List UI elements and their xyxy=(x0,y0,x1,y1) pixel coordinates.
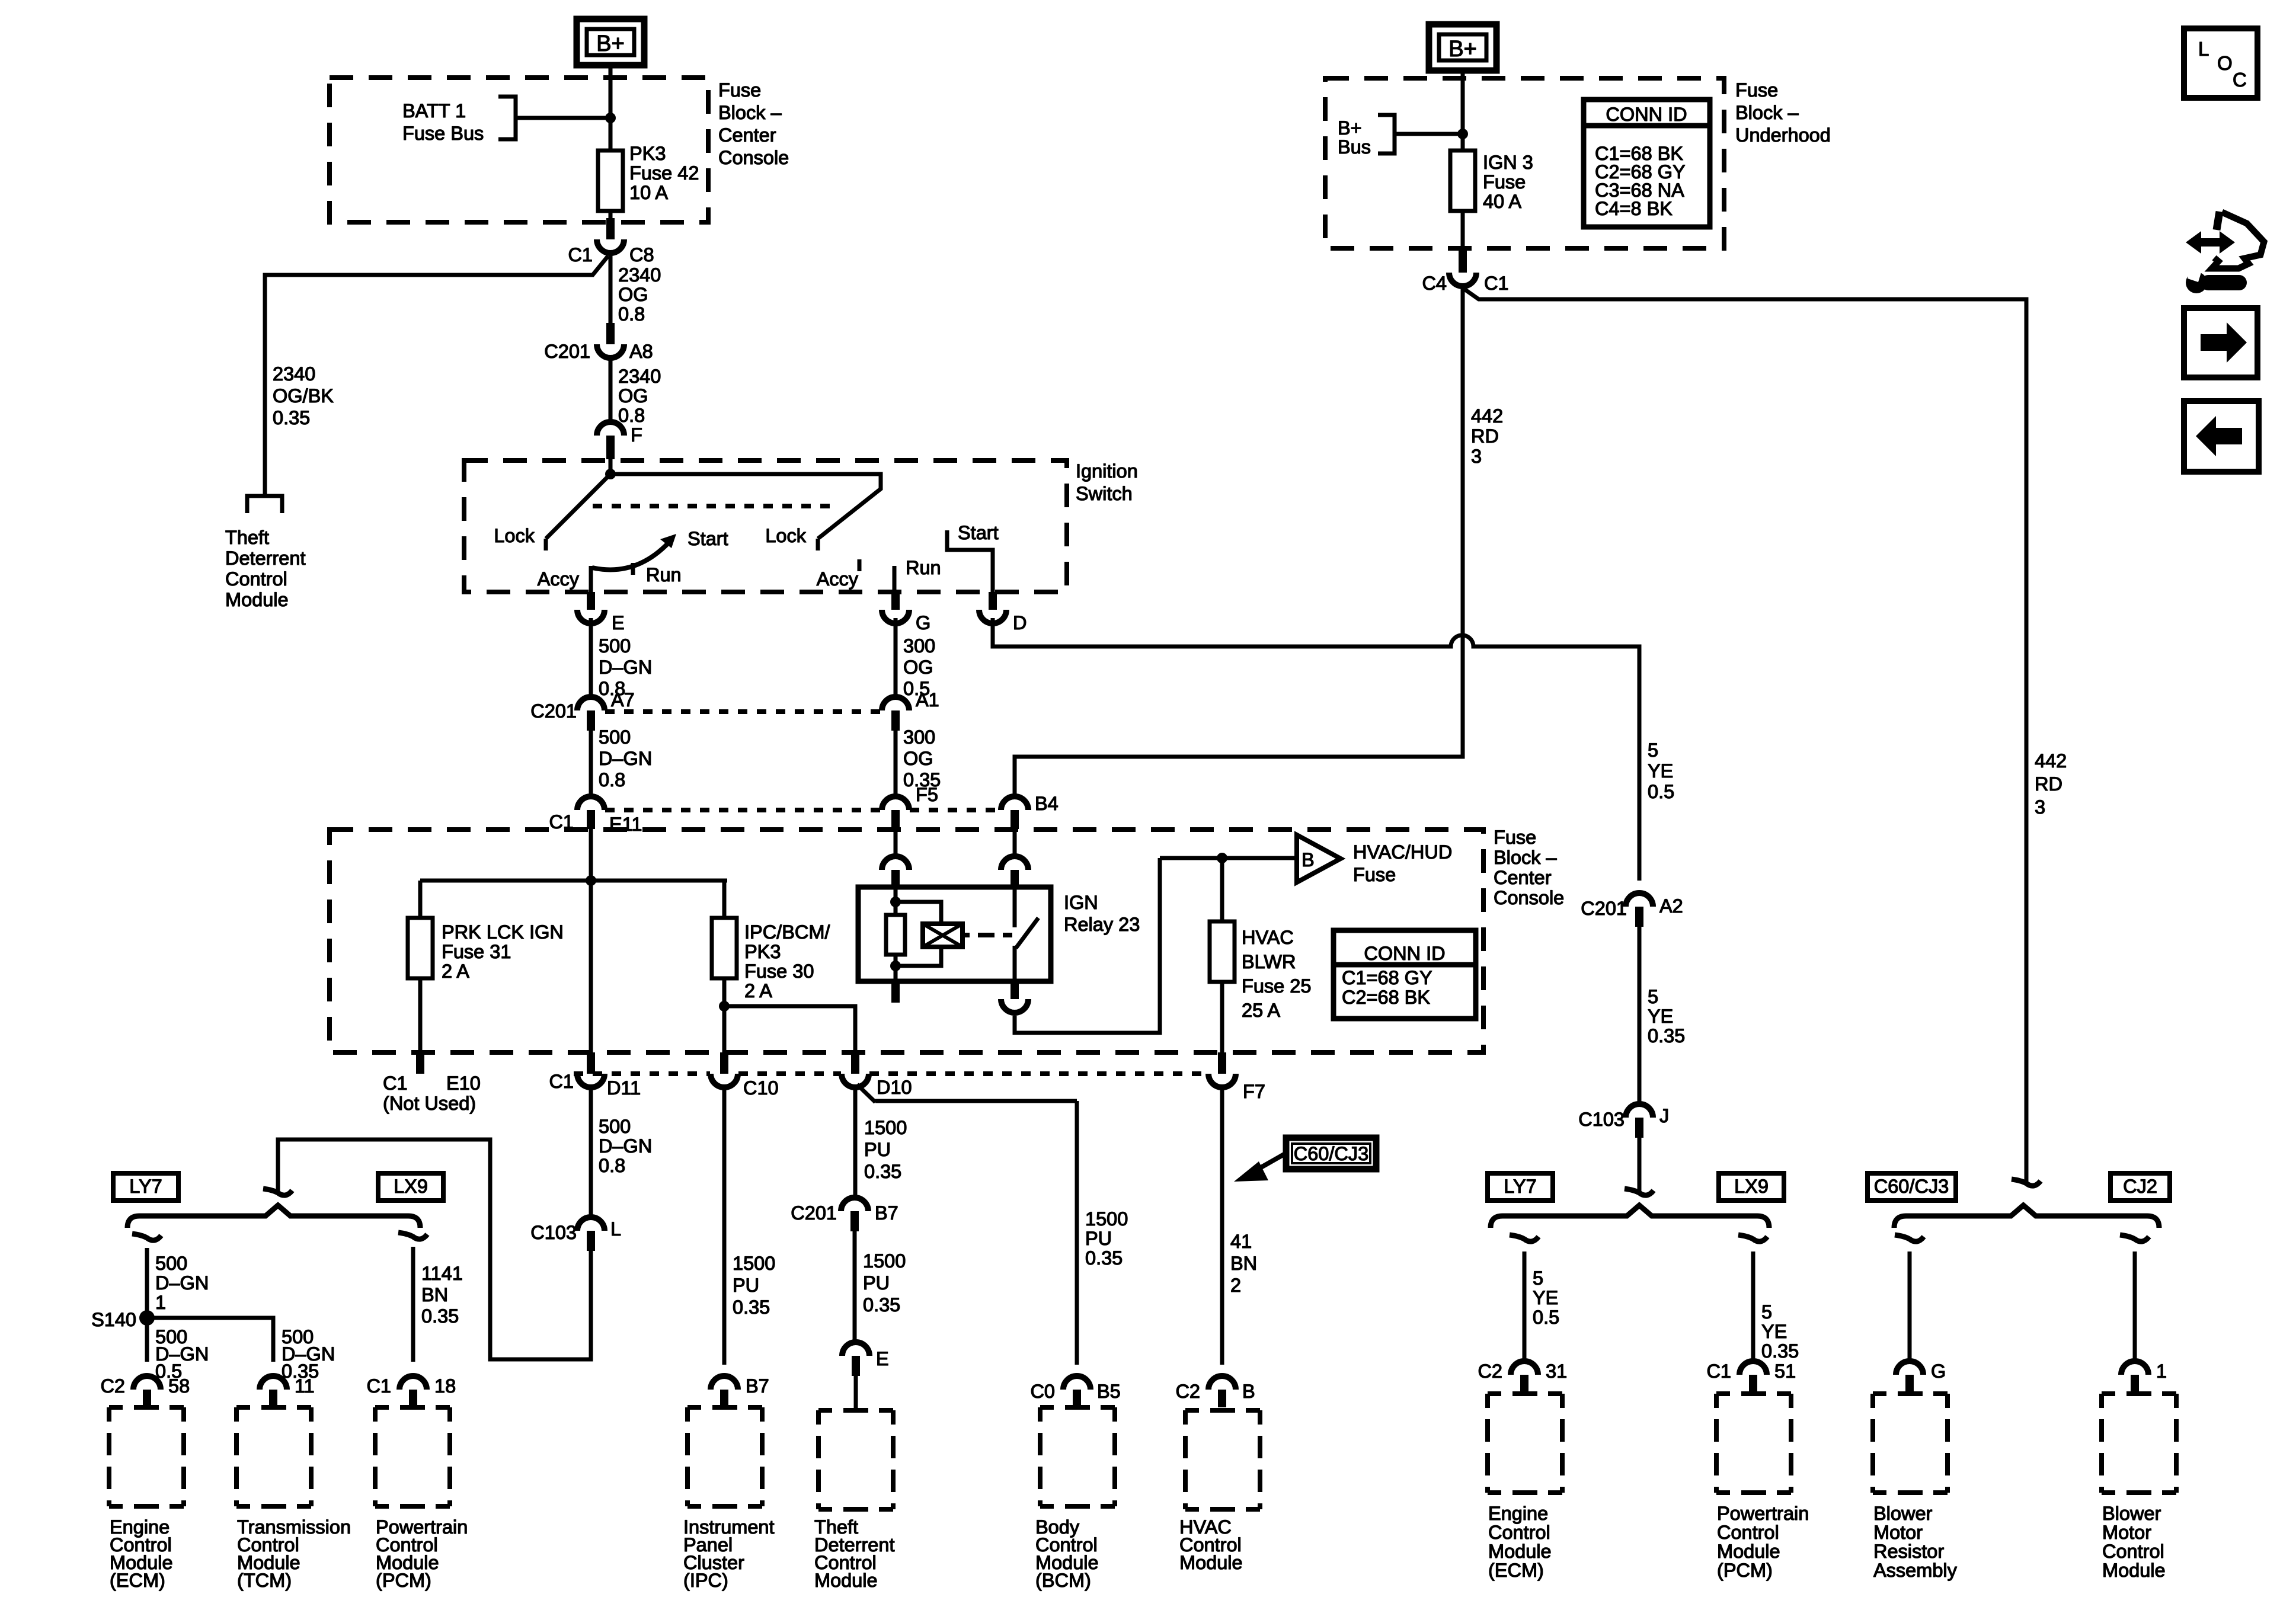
svg-text:Start: Start xyxy=(687,528,728,549)
powertrain control module (right) box xyxy=(1716,1394,1791,1493)
svg-text:YE: YE xyxy=(1648,760,1673,782)
label Accy (pole 2) xyxy=(817,568,859,590)
wire label 2340 OG 0.8 (lower) xyxy=(618,366,661,426)
svg-text:Module: Module xyxy=(225,589,289,610)
svg-text:PK3: PK3 xyxy=(629,143,666,164)
svg-text:Control: Control xyxy=(2102,1541,2164,1562)
LOC icon box xyxy=(2184,28,2257,98)
svg-text:LX9: LX9 xyxy=(394,1176,428,1197)
svg-text:Start: Start xyxy=(958,522,999,543)
wire node to HVAC BLWR fuse and HVAC/HUD xyxy=(1160,856,1297,860)
svg-text:Resistor: Resistor xyxy=(1873,1541,1944,1562)
svg-text:C1: C1 xyxy=(1484,273,1509,294)
connector E (theft) xyxy=(842,1342,889,1376)
svg-text:C0: C0 xyxy=(1030,1381,1055,1402)
blower motor resistor assembly box xyxy=(1873,1394,1948,1493)
wire break blower control xyxy=(2120,1235,2149,1241)
svg-text:PK3: PK3 xyxy=(744,941,781,962)
wire to PCM pin 18 xyxy=(411,1247,415,1362)
svg-text:C1: C1 xyxy=(366,1375,391,1397)
svg-text:442: 442 xyxy=(2035,750,2067,772)
connector C103/L xyxy=(530,1217,621,1251)
wire B+ bus to node xyxy=(1395,132,1463,136)
svg-text:B7: B7 xyxy=(746,1375,769,1397)
svg-text:Motor: Motor xyxy=(2102,1522,2151,1543)
svg-text:C103: C103 xyxy=(530,1222,577,1243)
svg-text:C1: C1 xyxy=(568,244,593,265)
svg-text:Relay 23: Relay 23 xyxy=(1064,914,1140,935)
label HVAC/HUD Fuse xyxy=(1353,841,1452,885)
wire S140 to ECM pin 58 xyxy=(145,1318,149,1362)
junction dot bus at D11 column xyxy=(586,875,596,886)
svg-text:Module: Module xyxy=(1488,1541,1552,1562)
wire E to C201/A7 xyxy=(589,618,593,699)
svg-text:2 A: 2 A xyxy=(744,980,772,1001)
svg-text:C4=8 BK: C4=8 BK xyxy=(1595,198,1673,219)
wire fuse25 to F7 xyxy=(1220,982,1224,1052)
svg-text:(ECM): (ECM) xyxy=(1488,1560,1544,1581)
svg-text:A2: A2 xyxy=(1659,895,1683,917)
label Engine Control Module ECM (right) xyxy=(1488,1503,1552,1581)
connector C1/C8 xyxy=(568,218,654,265)
svg-text:C8: C8 xyxy=(629,244,654,265)
wire S140 branch to TCM xyxy=(147,1318,273,1362)
splice S140 xyxy=(139,1310,155,1326)
svg-text:B4: B4 xyxy=(1035,793,1059,814)
svg-text:D–GN: D–GN xyxy=(599,1135,652,1157)
wire label 1500 PU 0.35 (IPC) xyxy=(733,1253,775,1318)
svg-text:S140: S140 xyxy=(91,1309,136,1330)
wire A7 to C1/E11 xyxy=(589,731,593,799)
wire label 300 OG 0.5 xyxy=(903,635,935,699)
svg-text:CJ2: CJ2 xyxy=(2123,1176,2157,1197)
svg-text:Lock: Lock xyxy=(765,525,806,546)
connector C1/D11 xyxy=(549,1052,641,1099)
svg-text:Bus: Bus xyxy=(1338,136,1371,158)
wire to blower resistor G xyxy=(1908,1251,1912,1362)
BATT 1 Fuse Bus terminal xyxy=(498,97,516,139)
svg-text:C: C xyxy=(2233,69,2247,91)
wire D10 to C201/B7 xyxy=(855,1084,1077,1199)
svg-text:D: D xyxy=(1013,612,1027,633)
svg-text:1500: 1500 xyxy=(863,1250,906,1272)
wire label 1141 BN 0.35 xyxy=(421,1263,463,1327)
wire break blower resistor xyxy=(1895,1235,1924,1241)
wire B+ down to fuse PK3 xyxy=(609,65,613,152)
wire label 500 D-GN 0.8 (E-A7) xyxy=(599,635,652,699)
connector C2/58 xyxy=(100,1375,190,1407)
wire BATT1 bus to node xyxy=(516,116,610,120)
svg-text:A7: A7 xyxy=(611,689,635,710)
svg-text:Run: Run xyxy=(906,557,941,578)
label BATT 1 Fuse Bus xyxy=(402,100,484,144)
wire label 500 D-GN 0.5 (ECM) xyxy=(155,1326,209,1382)
svg-text:PU: PU xyxy=(1085,1228,1112,1249)
wire bus to fuse 31 xyxy=(418,881,423,919)
svg-text:E: E xyxy=(876,1348,889,1369)
switch pole 2 bus xyxy=(610,474,881,550)
svg-text:31: 31 xyxy=(1546,1361,1567,1382)
wire break ECM right xyxy=(1510,1235,1539,1241)
svg-text:51: 51 xyxy=(1774,1361,1796,1382)
svg-text:PU: PU xyxy=(863,1272,890,1294)
wire label 1500 PU 0.35 (theft) xyxy=(863,1250,906,1315)
svg-text:Console: Console xyxy=(718,147,789,168)
relay coil bottom pin xyxy=(891,981,900,1003)
relay coil xyxy=(886,887,905,981)
svg-text:OG/BK: OG/BK xyxy=(273,385,334,406)
svg-text:BN: BN xyxy=(421,1284,448,1305)
label Start (pole 2) xyxy=(958,522,999,543)
connector C1/18 xyxy=(366,1375,456,1407)
svg-text:Fuse: Fuse xyxy=(1483,171,1526,193)
junction dot HVAC feed xyxy=(1217,853,1227,863)
svg-text:G: G xyxy=(916,612,930,633)
contact Accy wire to E xyxy=(589,566,593,594)
wire to ECM pin 31 xyxy=(1523,1251,1527,1362)
svg-text:Run: Run xyxy=(646,564,682,585)
svg-text:Fuse 25: Fuse 25 xyxy=(1242,975,1311,997)
wire label 1500 PU 0.35 (BCM) xyxy=(1085,1208,1128,1269)
svg-text:B: B xyxy=(1302,849,1315,870)
svg-text:2340: 2340 xyxy=(618,264,661,286)
fuse HVAC BLWR Fuse 25 25A xyxy=(1210,921,1235,982)
svg-text:Deterrent: Deterrent xyxy=(225,548,305,569)
svg-text:Lock: Lock xyxy=(494,525,535,546)
wire E11 through bus to D11 xyxy=(589,829,593,1052)
label Start (pole 1) xyxy=(687,528,728,549)
CONN ID table (center console) xyxy=(1334,930,1476,1019)
wire to BCM B5 xyxy=(1075,1101,1079,1365)
wire label 5 YE 0.5 (ECM) xyxy=(1533,1267,1559,1328)
svg-text:Center: Center xyxy=(718,124,776,146)
label HVAC BLWR Fuse 25 25 A xyxy=(1242,927,1311,1021)
svg-text:Block –: Block – xyxy=(1494,847,1558,868)
svg-text:18: 18 xyxy=(434,1375,456,1397)
svg-text:C2=68 BK: C2=68 BK xyxy=(1342,987,1430,1008)
connector F (ignition switch input) xyxy=(597,422,642,459)
svg-text:(PCM): (PCM) xyxy=(376,1570,431,1591)
svg-text:Powertrain: Powertrain xyxy=(1717,1503,1809,1524)
fuse block - center console (lower) dashed box xyxy=(330,830,1483,1052)
wire fuse31 to E10 xyxy=(418,978,423,1052)
svg-text:Control: Control xyxy=(1717,1522,1779,1543)
svg-text:Ignition: Ignition xyxy=(1076,460,1138,482)
wire G to C201/A1 xyxy=(894,618,898,699)
label LX9 (right) xyxy=(1719,1173,1784,1201)
wire to S140 xyxy=(145,1248,149,1318)
wire 442 branch right to CJ2 drop xyxy=(1463,288,2026,1182)
connector C201/A1 xyxy=(882,689,939,731)
wire label 5 YE 0.35 (PCM) xyxy=(1761,1301,1799,1362)
engine option brace (left) xyxy=(127,1205,420,1228)
svg-text:Blower: Blower xyxy=(1873,1503,1933,1524)
terminal E10 stub xyxy=(416,1052,424,1074)
connector C201/B7 (theft) xyxy=(791,1198,898,1231)
svg-text:PU: PU xyxy=(864,1139,891,1160)
label Powertrain Control Module PCM (left) xyxy=(376,1516,468,1591)
wire fuse42 to connector C8 xyxy=(609,211,613,220)
wire A2 to C103/J xyxy=(1638,927,1642,1106)
svg-text:5: 5 xyxy=(1533,1267,1543,1289)
wire break 442 drop xyxy=(2012,1179,2041,1186)
connector G (blower resistor) xyxy=(1896,1361,1946,1394)
svg-text:B5: B5 xyxy=(1097,1381,1121,1402)
svg-text:0.35: 0.35 xyxy=(733,1297,770,1318)
svg-text:IPC/BCM/: IPC/BCM/ xyxy=(744,921,830,943)
label CJ2 xyxy=(2110,1173,2170,1201)
relay switch contact xyxy=(1015,887,1038,981)
label PK3 Fuse 42 10 A xyxy=(629,143,699,203)
label Theft Deterrent Control Module xyxy=(225,527,305,610)
wire E to theft module xyxy=(854,1376,858,1410)
svg-text:Fuse: Fuse xyxy=(718,79,761,101)
wire break (LY7/LX9 right) xyxy=(1625,1189,1654,1195)
svg-text:1500: 1500 xyxy=(733,1253,775,1274)
svg-text:E10: E10 xyxy=(446,1073,481,1094)
wire relay output to HVAC fuse node xyxy=(1015,858,1160,1033)
svg-text:PRK LCK IGN: PRK LCK IGN xyxy=(442,921,564,943)
junction dot ignition feed xyxy=(605,459,616,479)
svg-text:40 A: 40 A xyxy=(1483,191,1521,212)
wire break (LY7/LX9 left) xyxy=(263,1189,292,1195)
svg-text:D–GN: D–GN xyxy=(155,1272,209,1294)
label Run (pole 2) xyxy=(906,557,941,578)
wire C10 to IPC B7 xyxy=(722,1086,727,1365)
svg-text:Fuse 30: Fuse 30 xyxy=(744,961,814,982)
svg-text:Engine: Engine xyxy=(1488,1503,1548,1524)
switch pole 1 travel arc to Start xyxy=(592,534,676,569)
svg-text:Fuse: Fuse xyxy=(1494,827,1536,848)
svg-text:41: 41 xyxy=(1230,1231,1252,1252)
svg-text:C1=68 GY: C1=68 GY xyxy=(1342,967,1432,988)
label Engine Control Module ECM (left) xyxy=(110,1516,173,1591)
svg-text:PU: PU xyxy=(733,1275,759,1296)
svg-text:0.8: 0.8 xyxy=(599,769,625,790)
connector C2/31 xyxy=(1478,1361,1567,1394)
svg-text:HVAC/HUD: HVAC/HUD xyxy=(1353,841,1452,863)
svg-text:Underhood: Underhood xyxy=(1735,124,1831,146)
svg-text:3: 3 xyxy=(1471,446,1482,467)
relay switch output pin xyxy=(1001,981,1028,1013)
B+ Bus terminal xyxy=(1378,115,1395,153)
connector B4 xyxy=(1001,793,1059,829)
label LY7 (left) xyxy=(113,1173,178,1201)
svg-text:2340: 2340 xyxy=(618,366,661,387)
svg-text:Module: Module xyxy=(814,1570,878,1591)
connector 11 (TCM) xyxy=(260,1375,315,1407)
svg-text:OG: OG xyxy=(618,385,648,406)
svg-text:Block –: Block – xyxy=(718,102,782,123)
svg-text:CONN ID: CONN ID xyxy=(1606,104,1687,125)
junction dot fuse30 branch xyxy=(719,1001,730,1012)
connector C201 dashed line xyxy=(605,709,881,714)
wire A8 to F xyxy=(609,356,613,424)
wire label 442 RD 3 (main) xyxy=(1471,405,1503,467)
label IGN 3 Fuse 40 A xyxy=(1483,152,1533,212)
wire 442 feed to B4 xyxy=(1015,289,1463,799)
wire C8 to C201/A8 xyxy=(609,252,613,325)
fuse IPC/BCM/PK3 Fuse 30 2A xyxy=(712,918,737,978)
wire break PCM right xyxy=(1738,1235,1767,1241)
svg-text:0.35: 0.35 xyxy=(1085,1247,1123,1269)
theft deterrent control module stub xyxy=(247,496,282,513)
svg-text:(PCM): (PCM) xyxy=(1717,1560,1773,1581)
svg-text:Module: Module xyxy=(2102,1560,2166,1581)
svg-text:LY7: LY7 xyxy=(129,1176,162,1197)
svg-text:Accy: Accy xyxy=(817,568,859,590)
svg-text:B: B xyxy=(1242,1381,1255,1402)
svg-text:C4: C4 xyxy=(1422,273,1447,294)
svg-text:YE: YE xyxy=(1533,1287,1558,1308)
svg-text:CONN ID: CONN ID xyxy=(1364,943,1445,964)
svg-text:D–GN: D–GN xyxy=(599,657,652,678)
svg-text:C201: C201 xyxy=(1581,898,1627,919)
label Fuse Block - Center Console (lower) xyxy=(1494,827,1564,908)
label LX9 (left) xyxy=(378,1173,443,1201)
svg-text:C201: C201 xyxy=(544,341,590,362)
contact Run wire to G (pole 2) xyxy=(893,566,897,594)
label Blower Motor Resistor Assembly xyxy=(1873,1503,1958,1581)
svg-text:L: L xyxy=(2198,38,2209,60)
theft deterrent control module box xyxy=(818,1410,893,1509)
C60/CJ3 callout with arrow xyxy=(1234,1138,1376,1182)
power feed B+ (right) xyxy=(1429,24,1496,71)
wire fuse30 down to C10 xyxy=(722,978,727,1052)
wire branch to D10 xyxy=(724,1006,855,1052)
wire B7 to E (theft) xyxy=(853,1231,857,1343)
svg-text:Accy: Accy xyxy=(538,568,580,590)
connector C201/A7 xyxy=(530,689,634,731)
svg-text:BN: BN xyxy=(1230,1253,1257,1274)
svg-text:3: 3 xyxy=(2035,796,2045,818)
label LY7 (right) xyxy=(1488,1173,1553,1201)
junction dot B+ bus xyxy=(1457,129,1468,139)
connector C4/C1 xyxy=(1422,249,1508,294)
fuse bus bar xyxy=(420,879,727,883)
svg-text:500: 500 xyxy=(599,1116,631,1137)
svg-text:C1: C1 xyxy=(1706,1361,1731,1382)
label HVAC Control Module xyxy=(1179,1516,1243,1573)
svg-text:Center: Center xyxy=(1494,867,1552,888)
wire label 500 D-GN 0.8 (D11) xyxy=(599,1116,652,1176)
svg-text:C201: C201 xyxy=(791,1202,837,1224)
svg-text:442: 442 xyxy=(1471,405,1503,427)
svg-text:Assembly: Assembly xyxy=(1873,1560,1958,1581)
svg-text:Console: Console xyxy=(1494,887,1564,908)
power feed B+ (left) xyxy=(577,19,644,65)
connector C0/B5 xyxy=(1030,1376,1120,1407)
wire label 1500 PU 0.35 (D10) xyxy=(864,1117,907,1182)
label C60/CJ3 (right) xyxy=(1868,1173,1956,1201)
connector D10 xyxy=(842,1052,912,1098)
svg-text:O: O xyxy=(2217,52,2233,74)
wire to PCM pin 51 xyxy=(1751,1251,1755,1362)
svg-text:0.8: 0.8 xyxy=(599,1155,625,1176)
fuse block - center console (upper) dashed box xyxy=(330,78,708,222)
svg-text:(IPC): (IPC) xyxy=(683,1570,728,1591)
connector C103/J xyxy=(1578,1104,1669,1138)
svg-text:(TCM): (TCM) xyxy=(237,1570,292,1591)
switch pole 1 wiper to Lock xyxy=(546,474,610,550)
svg-text:Blower: Blower xyxy=(2102,1503,2161,1524)
connector C1 dashed line (E11/F5/B4) xyxy=(605,808,1000,812)
switch mechanical link dashed line xyxy=(593,504,836,508)
svg-text:Fuse 42: Fuse 42 xyxy=(629,162,699,184)
svg-text:Fuse: Fuse xyxy=(1735,79,1778,101)
svg-text:500: 500 xyxy=(599,726,631,748)
wire label 442 RD 3 (right drop) xyxy=(2035,750,2067,818)
svg-text:Fuse 31: Fuse 31 xyxy=(442,941,511,962)
contact Start L-wire to D (pole 2) xyxy=(947,530,993,594)
wire label 300 OG 0.35 xyxy=(903,726,941,790)
wire label 2340 OG 0.8 (upper) xyxy=(618,264,661,325)
label Run (pole 1) xyxy=(646,564,682,585)
fuse IGN 3 Fuse 40A xyxy=(1450,151,1475,211)
label Powertrain Control Module PCM (right) xyxy=(1717,1503,1809,1581)
svg-text:D10: D10 xyxy=(877,1077,912,1098)
svg-text:300: 300 xyxy=(903,726,935,748)
connector C201/A2 xyxy=(1581,893,1683,927)
svg-text:F: F xyxy=(631,424,642,446)
CONN ID table (underhood) xyxy=(1584,100,1710,227)
HVAC/HUD fuse triangle xyxy=(1297,835,1341,882)
label Lock (pole 1) xyxy=(494,525,535,546)
svg-text:1: 1 xyxy=(155,1292,166,1313)
label Ignition Switch xyxy=(1076,460,1138,504)
instrument panel cluster box xyxy=(687,1407,762,1506)
label B+ Bus xyxy=(1338,117,1371,158)
wire node to fuse 25 xyxy=(1220,858,1224,923)
svg-text:RD: RD xyxy=(1471,425,1499,447)
svg-text:500: 500 xyxy=(599,635,631,657)
svg-text:2340: 2340 xyxy=(273,363,315,385)
svg-text:J: J xyxy=(1659,1105,1669,1126)
svg-text:F7: F7 xyxy=(1243,1081,1265,1102)
svg-text:Fuse: Fuse xyxy=(1353,864,1396,885)
wire label 500 D-GN 0.35 (TCM) xyxy=(282,1326,335,1382)
svg-text:HVAC: HVAC xyxy=(1242,927,1294,948)
svg-text:B+: B+ xyxy=(1338,117,1362,139)
svg-text:300: 300 xyxy=(903,635,935,657)
label Fuse Block - Underhood xyxy=(1735,79,1831,146)
wire IGN3 fuse to C4/C1 xyxy=(1461,211,1465,251)
svg-text:500: 500 xyxy=(155,1253,187,1274)
svg-text:Switch: Switch xyxy=(1076,483,1133,504)
svg-text:D11: D11 xyxy=(607,1077,641,1099)
fuse PRK LCK IGN Fuse 31 2A xyxy=(408,918,433,978)
svg-text:C60/CJ3: C60/CJ3 xyxy=(1294,1143,1368,1164)
svg-text:C103: C103 xyxy=(1578,1109,1625,1130)
svg-text:0.5: 0.5 xyxy=(1533,1307,1559,1328)
contact Run (pole 1) xyxy=(631,563,635,575)
connector C10 xyxy=(711,1052,779,1099)
wire label 2340 OG/BK 0.35 xyxy=(273,363,334,428)
svg-text:C1: C1 xyxy=(549,1071,574,1092)
label PRK LCK IGN Fuse 31 2 A xyxy=(442,921,564,982)
label Transmission Control Module TCM xyxy=(237,1516,351,1591)
wire break PCM left xyxy=(398,1233,427,1239)
engine control module (right) box xyxy=(1488,1394,1562,1493)
connector D xyxy=(979,592,1027,633)
svg-text:LY7: LY7 xyxy=(1504,1176,1536,1197)
svg-text:C1: C1 xyxy=(383,1073,408,1094)
svg-text:C201: C201 xyxy=(530,700,577,722)
wire break S140 branch xyxy=(132,1234,161,1240)
svg-text:10 A: 10 A xyxy=(629,182,668,203)
label Blower Motor Control Module xyxy=(2102,1503,2166,1581)
svg-text:YE: YE xyxy=(1648,1006,1673,1027)
